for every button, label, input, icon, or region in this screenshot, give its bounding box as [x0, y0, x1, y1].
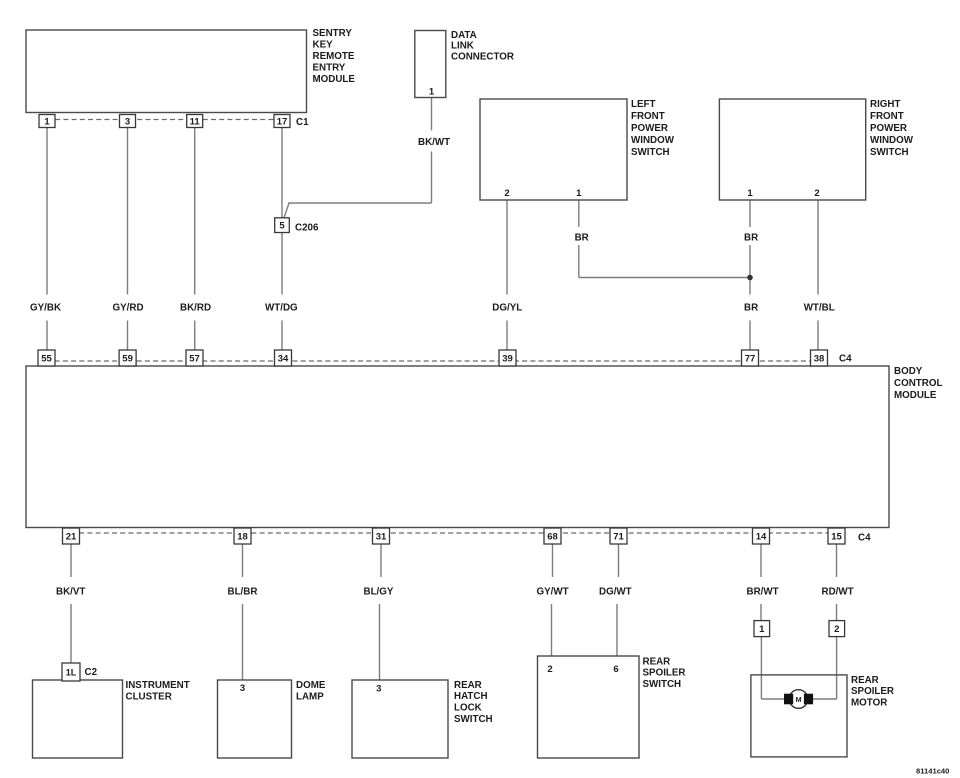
svg-text:1: 1: [576, 188, 582, 199]
svg-text:1: 1: [747, 188, 753, 199]
svg-text:LEFT: LEFT: [631, 99, 656, 110]
svg-text:57: 57: [189, 353, 200, 364]
svg-text:HATCH: HATCH: [454, 691, 488, 702]
svg-text:MODULE: MODULE: [894, 390, 937, 401]
svg-text:2: 2: [547, 664, 552, 675]
svg-text:MODULE: MODULE: [313, 74, 356, 85]
svg-text:DG/WT: DG/WT: [599, 586, 632, 597]
svg-text:BL/GY: BL/GY: [364, 586, 394, 597]
svg-text:BK/VT: BK/VT: [56, 586, 85, 597]
svg-text:DG/YL: DG/YL: [492, 303, 522, 314]
svg-text:3: 3: [240, 683, 245, 694]
svg-text:C4: C4: [839, 354, 852, 365]
svg-text:FRONT: FRONT: [631, 111, 665, 122]
svg-text:LOCK: LOCK: [454, 703, 482, 714]
svg-text:BK/WT: BK/WT: [418, 137, 450, 148]
svg-text:WT/BL: WT/BL: [804, 303, 835, 314]
svg-text:2: 2: [834, 624, 839, 635]
svg-text:15: 15: [831, 531, 842, 542]
svg-text:3: 3: [125, 116, 130, 127]
svg-text:5: 5: [279, 221, 285, 232]
svg-text:2: 2: [504, 188, 509, 199]
svg-text:14: 14: [756, 531, 767, 542]
svg-text:CONNECTOR: CONNECTOR: [451, 52, 514, 63]
svg-text:M: M: [796, 695, 802, 704]
svg-text:55: 55: [41, 353, 52, 364]
svg-text:1L: 1L: [66, 667, 77, 677]
svg-text:SWITCH: SWITCH: [870, 147, 909, 158]
svg-text:REMOTE: REMOTE: [313, 51, 355, 62]
svg-text:BODY: BODY: [894, 366, 923, 377]
svg-text:3: 3: [376, 684, 381, 695]
svg-text:59: 59: [122, 353, 133, 364]
svg-text:38: 38: [814, 353, 825, 364]
svg-text:34: 34: [278, 353, 289, 364]
svg-text:6: 6: [613, 664, 618, 675]
svg-text:WT/DG: WT/DG: [265, 303, 298, 314]
svg-text:71: 71: [613, 531, 624, 542]
svg-text:BR: BR: [744, 303, 758, 314]
svg-text:68: 68: [547, 531, 558, 542]
svg-text:REAR: REAR: [643, 656, 671, 667]
svg-text:SWITCH: SWITCH: [643, 679, 682, 690]
svg-text:BL/BR: BL/BR: [228, 586, 258, 597]
svg-text:C206: C206: [295, 223, 319, 234]
svg-text:POWER: POWER: [631, 123, 668, 134]
svg-text:18: 18: [237, 531, 248, 542]
svg-text:39: 39: [502, 353, 513, 364]
svg-text:DATA: DATA: [451, 30, 477, 41]
svg-text:RD/WT: RD/WT: [822, 586, 854, 597]
svg-text:BR: BR: [744, 233, 758, 244]
svg-text:BR/WT: BR/WT: [747, 586, 779, 597]
svg-text:GY/RD: GY/RD: [113, 303, 144, 314]
svg-text:INSTRUMENT: INSTRUMENT: [126, 680, 190, 691]
svg-text:REAR: REAR: [454, 680, 482, 691]
svg-text:CLUSTER: CLUSTER: [126, 691, 172, 702]
svg-text:81141c40: 81141c40: [916, 767, 949, 776]
svg-text:FRONT: FRONT: [870, 111, 904, 122]
svg-text:BR: BR: [575, 233, 589, 244]
svg-text:BK/RD: BK/RD: [180, 303, 211, 314]
svg-text:LINK: LINK: [451, 41, 474, 52]
svg-text:WINDOW: WINDOW: [631, 135, 675, 146]
svg-text:REAR: REAR: [851, 675, 879, 686]
svg-text:POWER: POWER: [870, 123, 907, 134]
svg-text:1: 1: [429, 87, 435, 98]
svg-text:ENTRY: ENTRY: [313, 62, 346, 73]
svg-text:LAMP: LAMP: [296, 691, 324, 702]
svg-text:31: 31: [376, 531, 387, 542]
svg-text:SENTRY: SENTRY: [313, 28, 353, 39]
svg-text:DOME: DOME: [296, 680, 326, 691]
svg-text:GY/WT: GY/WT: [537, 586, 569, 597]
svg-text:SWITCH: SWITCH: [454, 714, 493, 725]
svg-text:1: 1: [44, 116, 50, 127]
svg-text:C1: C1: [296, 117, 309, 128]
svg-text:1: 1: [759, 624, 765, 635]
svg-text:21: 21: [66, 531, 77, 542]
svg-text:RIGHT: RIGHT: [870, 99, 900, 110]
svg-text:WINDOW: WINDOW: [870, 135, 914, 146]
svg-text:KEY: KEY: [313, 39, 334, 50]
svg-text:C4: C4: [858, 533, 871, 544]
svg-text:77: 77: [745, 353, 756, 364]
svg-text:SPOILER: SPOILER: [851, 686, 894, 697]
svg-text:CONTROL: CONTROL: [894, 378, 942, 389]
svg-text:17: 17: [277, 116, 288, 127]
svg-text:2: 2: [814, 188, 819, 199]
svg-text:C2: C2: [85, 667, 98, 678]
svg-text:SWITCH: SWITCH: [631, 147, 670, 158]
svg-text:SPOILER: SPOILER: [643, 668, 686, 679]
svg-text:11: 11: [190, 116, 201, 127]
svg-text:MOTOR: MOTOR: [851, 698, 887, 709]
svg-text:GY/BK: GY/BK: [30, 303, 61, 314]
